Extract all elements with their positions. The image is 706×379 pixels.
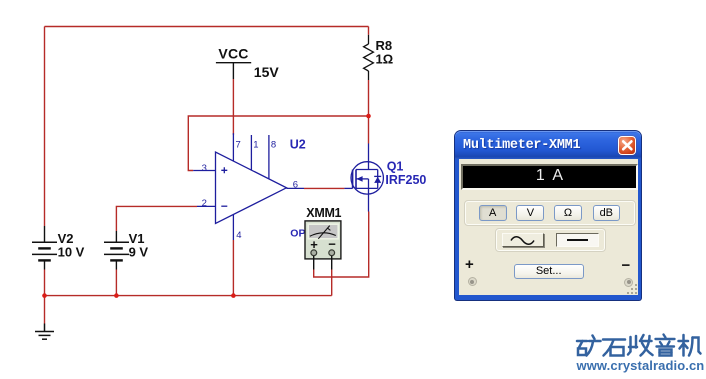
- meter XMM1 icon: [305, 221, 341, 270]
- wire R8 top stub: [368, 27, 370, 35]
- button V: [516, 205, 544, 221]
- wire R8 bottom to node: [368, 80, 370, 116]
- plus terminal label: [465, 256, 474, 273]
- wire Q1 source to XMM1 plus: [314, 212, 369, 278]
- node junction V2/ground/rail: [42, 293, 47, 298]
- power VCC symbol: [216, 63, 251, 79]
- node junction V1/rail: [114, 293, 119, 298]
- window title text: [463, 138, 580, 153]
- button DC (sunken, selected): [556, 233, 599, 247]
- button A (pressed): [479, 205, 507, 221]
- op-amp U2: [193, 133, 304, 240]
- group waveform buttons: [495, 228, 606, 252]
- svg-text:15V: 15V: [254, 64, 280, 80]
- wire bottom rail: [45, 295, 332, 297]
- svg-text:1: 1: [253, 140, 258, 151]
- node junction pin4/rail: [231, 293, 236, 298]
- meter reading 1 A: [461, 167, 638, 185]
- ground: [35, 324, 54, 340]
- window client area: [459, 159, 638, 296]
- resize grip: [625, 282, 639, 296]
- svg-text:IRF250: IRF250: [385, 173, 426, 187]
- svg-text:VCC: VCC: [218, 46, 248, 62]
- svg-text:U2: U2: [290, 138, 306, 152]
- close button: [618, 136, 637, 155]
- char yin: [656, 335, 675, 356]
- wire top loop: [45, 26, 369, 28]
- watermark: [570, 330, 706, 379]
- button Set...: [514, 264, 584, 279]
- wire ground stub: [44, 296, 46, 324]
- svg-text:www.crystalradio.cn: www.crystalradio.cn: [576, 358, 705, 373]
- wire feedback loop: [188, 116, 368, 171]
- meter display: [461, 164, 638, 190]
- wire node to Q1 drain: [368, 116, 370, 144]
- wire rail up to XMM1 minus: [331, 270, 333, 296]
- wire V1 bottom to rail: [115, 270, 117, 296]
- battery V2: [32, 226, 57, 270]
- window title bar: [455, 131, 641, 159]
- svg-text:8: 8: [271, 139, 276, 150]
- wire left vertical to V2: [44, 27, 46, 227]
- minus terminal jack: [624, 278, 633, 287]
- node junction R8/feedback/drain: [366, 114, 371, 119]
- transistor Q1 MOSFET: [344, 144, 383, 212]
- wire pin4 to rail: [232, 240, 234, 296]
- plus terminal jack: [468, 277, 477, 286]
- svg-text:9 V: 9 V: [129, 245, 149, 260]
- char shi: [603, 340, 625, 356]
- wire V2 bottom to rail: [44, 270, 46, 296]
- wire VCC to pin7: [232, 79, 234, 135]
- multimeter window XMM1: [455, 131, 641, 301]
- button dB: [593, 205, 620, 221]
- svg-text:XMM1: XMM1: [306, 206, 341, 220]
- wire V1 top corner: [116, 206, 197, 231]
- button AC (raised): [502, 233, 544, 248]
- char ji: [679, 335, 701, 356]
- char shou: [628, 335, 653, 356]
- svg-text:2: 2: [202, 198, 207, 209]
- svg-text:7: 7: [236, 140, 241, 151]
- svg-text:Q1: Q1: [387, 160, 404, 174]
- battery V1: [104, 231, 129, 270]
- minus terminal label: [622, 257, 631, 274]
- resistor R8: [364, 35, 374, 80]
- button Ohm: [554, 205, 582, 221]
- svg-text:6: 6: [293, 179, 298, 190]
- svg-text:1Ω: 1Ω: [376, 52, 394, 67]
- svg-text:3: 3: [202, 163, 207, 174]
- group mode buttons: [464, 200, 635, 226]
- svg-text:4: 4: [236, 230, 241, 241]
- svg-text:10 V: 10 V: [58, 245, 85, 260]
- svg-text:−: −: [328, 237, 336, 252]
- wire opamp out to gate: [304, 187, 344, 189]
- char kuang: [577, 336, 601, 356]
